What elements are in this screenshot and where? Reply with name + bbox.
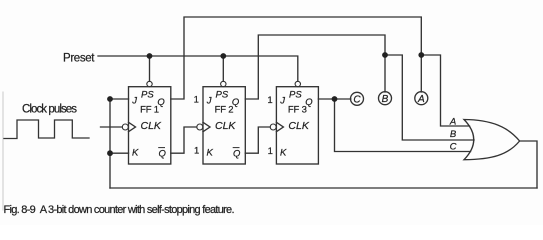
svg-text:1: 1 — [268, 146, 273, 157]
wire feedback left vertical — [109, 99, 111, 188]
svg-text:A: A — [417, 94, 425, 105]
wire FF2 Qbar to FF3 CLK — [245, 127, 270, 153]
junction J node — [107, 96, 113, 102]
wire FF1 Qbar to FF2 CLK — [171, 127, 197, 153]
svg-text:Fig. 8-9 A 3-bit down counter: Fig. 8-9 A 3-bit down counter with self-… — [4, 204, 235, 216]
lamp A circle — [415, 92, 428, 105]
svg-text:CLK: CLK — [288, 120, 309, 132]
svg-text:K: K — [280, 148, 287, 159]
svg-text:1: 1 — [267, 95, 272, 106]
wire K input FF1 — [110, 152, 129, 154]
svg-text:C: C — [353, 94, 361, 105]
svg-text:A: A — [449, 116, 456, 127]
svg-text:PS: PS — [289, 89, 302, 100]
svg-text:PS: PS — [141, 89, 154, 100]
wire C branch to OR gate — [335, 99, 471, 152]
FF2 CLK bubble — [197, 124, 203, 130]
svg-text:C: C — [450, 142, 457, 153]
FF1 Qbar overline — [158, 147, 165, 149]
wire clock input to FF1 CLK — [101, 126, 123, 128]
svg-text:Preset: Preset — [63, 53, 95, 65]
svg-text:B: B — [382, 94, 389, 105]
wire preset drop to FF1 PS — [149, 56, 151, 81]
svg-text:K: K — [207, 148, 214, 159]
wire OR output — [520, 141, 537, 188]
FF1 PS bubble — [147, 81, 152, 86]
FF3 CLK bubble — [270, 124, 276, 130]
lamp B circle — [379, 92, 392, 105]
svg-text:FF 1: FF 1 — [140, 104, 159, 115]
svg-text:K: K — [132, 148, 139, 159]
svg-text:FF 2: FF 2 — [215, 104, 234, 115]
wire FF2 Q to rail 2 to B — [245, 35, 385, 99]
junction preset-FF1 — [147, 53, 153, 59]
clock pulses waveform — [4, 120, 89, 139]
FF1 CLK bubble — [122, 124, 128, 130]
wire feedback bottom — [110, 187, 537, 189]
wire J input FF1 — [110, 98, 129, 100]
FF2 Qbar overline — [233, 147, 240, 149]
wire FF1 Q to top rail to A — [171, 17, 421, 99]
svg-text:1: 1 — [194, 95, 199, 106]
junction A node — [418, 52, 424, 58]
flip-flop FF3 box — [276, 87, 318, 164]
svg-text:B: B — [450, 129, 457, 140]
svg-text:FF 3: FF 3 — [288, 104, 307, 115]
svg-text:CLK: CLK — [141, 120, 162, 132]
svg-text:J: J — [279, 96, 285, 107]
junction B node — [382, 52, 388, 58]
or-gate G1 — [464, 120, 520, 160]
svg-text:PS: PS — [216, 89, 229, 100]
svg-text:J: J — [206, 96, 212, 107]
flip-flop FF1 box — [129, 87, 171, 164]
svg-text:Q: Q — [159, 148, 167, 159]
lamp C circle — [351, 92, 364, 105]
FF3 CLK triangle — [276, 122, 283, 131]
wire A branch to OR gate — [421, 55, 469, 126]
svg-text:Q: Q — [233, 148, 241, 159]
FF2 CLK triangle — [203, 122, 210, 131]
FF3 PS bubble — [295, 81, 300, 86]
scan edge artifact — [2, 92, 4, 210]
FF2 PS bubble — [221, 81, 226, 86]
svg-text:J: J — [131, 96, 137, 107]
wire preset rail — [98, 56, 298, 81]
junction K node — [107, 150, 113, 156]
FF1 CLK triangle — [129, 122, 136, 131]
wire FF3 Q stub to lamp C — [318, 98, 350, 100]
junction FF3 Q node — [332, 96, 338, 102]
svg-text:1: 1 — [194, 146, 199, 157]
wire preset drop to FF2 PS — [222, 56, 224, 81]
svg-text:Clock pulses: Clock pulses — [22, 104, 77, 116]
junction preset-FF2 — [220, 53, 226, 59]
wire B branch to OR gate — [385, 55, 474, 140]
svg-text:CLK: CLK — [215, 120, 236, 132]
flip-flop FF2 box — [203, 87, 245, 164]
